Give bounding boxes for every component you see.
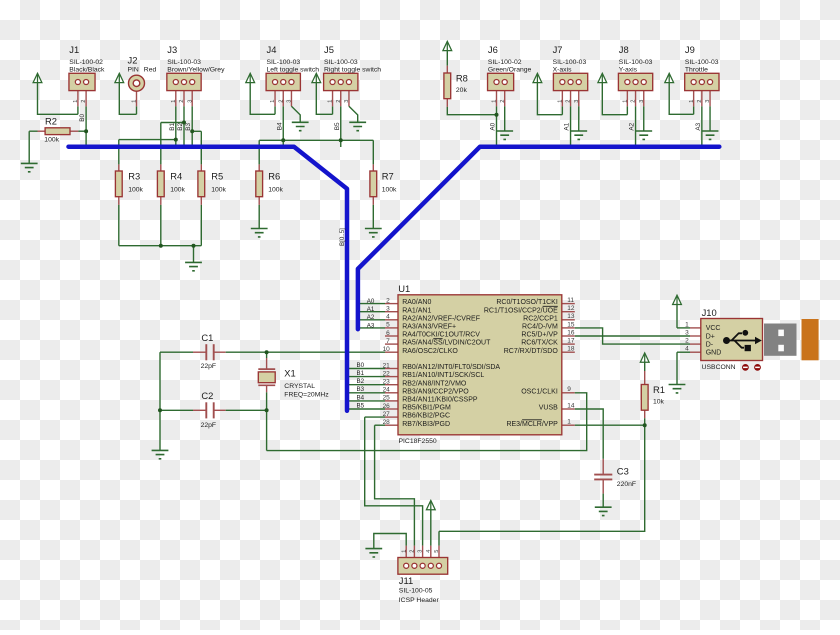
svg-text:R1: R1 <box>653 384 665 395</box>
svg-text:RA0/AN0: RA0/AN0 <box>402 299 431 306</box>
svg-text:17: 17 <box>567 338 575 345</box>
svg-text:SIL-100-03: SIL-100-03 <box>267 59 301 66</box>
svg-text:C3: C3 <box>617 465 629 476</box>
svg-text:RB4/AN11/KBI0/CSSPP: RB4/AN11/KBI0/CSSPP <box>402 397 478 404</box>
svg-text:RC4/D-/VM: RC4/D-/VM <box>522 324 558 331</box>
svg-text:3: 3 <box>187 100 193 103</box>
svg-text:OSC1/CLKI: OSC1/CLKI <box>521 388 558 395</box>
svg-text:100k: 100k <box>170 186 185 193</box>
svg-text:4: 4 <box>426 550 432 553</box>
svg-text:RC2/CCP1: RC2/CCP1 <box>523 315 558 322</box>
svg-text:3: 3 <box>685 329 689 336</box>
svg-text:J11: J11 <box>399 575 413 586</box>
svg-text:J7: J7 <box>553 44 563 55</box>
svg-text:B5: B5 <box>357 402 365 409</box>
svg-text:B4: B4 <box>276 122 283 130</box>
svg-text:GND: GND <box>706 350 722 357</box>
svg-text:RC6/TX/CK: RC6/TX/CK <box>521 340 558 347</box>
svg-text:A2: A2 <box>367 314 375 321</box>
svg-text:B1: B1 <box>169 123 176 131</box>
svg-text:PIC18F2550: PIC18F2550 <box>399 438 437 445</box>
svg-text:1: 1 <box>132 100 138 103</box>
svg-text:X-axis: X-axis <box>553 66 572 73</box>
svg-text:2: 2 <box>631 100 637 103</box>
svg-text:B0: B0 <box>79 113 86 121</box>
svg-text:Right toggle switch: Right toggle switch <box>324 66 381 73</box>
svg-text:11: 11 <box>567 297 574 304</box>
svg-text:RB7/KBI3/PGD: RB7/KBI3/PGD <box>402 421 450 428</box>
svg-text:B1: B1 <box>357 370 365 377</box>
svg-text:FREQ=20MHz: FREQ=20MHz <box>284 392 329 399</box>
svg-text:18: 18 <box>567 346 575 353</box>
svg-text:100k: 100k <box>44 136 59 143</box>
svg-text:RC5/D+/VP: RC5/D+/VP <box>521 332 558 339</box>
svg-text:SIL-100-02: SIL-100-02 <box>69 59 103 66</box>
svg-text:RA5/AN4/SS/LVDIN/C2OUT: RA5/AN4/SS/LVDIN/C2OUT <box>402 340 491 347</box>
svg-text:SIL-100-03: SIL-100-03 <box>324 59 358 66</box>
svg-text:100k: 100k <box>382 186 397 193</box>
svg-text:1: 1 <box>171 100 177 103</box>
svg-text:SIL-100-05: SIL-100-05 <box>399 588 433 595</box>
svg-text:5: 5 <box>386 322 390 329</box>
svg-text:1: 1 <box>622 100 628 103</box>
svg-text:1: 1 <box>685 321 689 328</box>
svg-text:A0: A0 <box>367 298 375 305</box>
svg-text:PIN: PIN <box>128 66 139 73</box>
svg-text:4: 4 <box>685 346 689 353</box>
svg-text:13: 13 <box>567 313 575 320</box>
svg-text:1: 1 <box>492 100 498 103</box>
svg-text:16: 16 <box>567 329 575 336</box>
svg-text:Throttle: Throttle <box>685 66 708 73</box>
svg-text:D+: D+ <box>706 333 715 340</box>
svg-text:B2: B2 <box>357 378 365 385</box>
svg-text:R8: R8 <box>456 72 468 83</box>
svg-text:CRYSTAL: CRYSTAL <box>284 383 315 390</box>
svg-text:22pF: 22pF <box>201 422 217 429</box>
svg-text:12: 12 <box>567 305 575 312</box>
svg-text:9: 9 <box>567 386 571 393</box>
svg-text:100k: 100k <box>211 186 226 193</box>
svg-text:20k: 20k <box>456 87 468 94</box>
svg-text:R2: R2 <box>45 116 57 127</box>
svg-text:6: 6 <box>386 330 390 337</box>
svg-text:2: 2 <box>278 100 284 103</box>
svg-text:2: 2 <box>410 550 416 553</box>
svg-text:RE3/MCLR/VPP: RE3/MCLR/VPP <box>506 421 558 428</box>
svg-text:2: 2 <box>179 100 185 103</box>
svg-text:Brown/Yellow/Grey: Brown/Yellow/Grey <box>167 66 225 73</box>
svg-text:25: 25 <box>383 395 391 402</box>
svg-text:R7: R7 <box>382 170 394 181</box>
svg-text:5: 5 <box>434 550 440 553</box>
svg-text:B2: B2 <box>177 123 184 131</box>
svg-text:27: 27 <box>383 411 391 418</box>
svg-text:2: 2 <box>685 338 689 345</box>
svg-text:7: 7 <box>386 338 390 345</box>
svg-text:2: 2 <box>336 100 342 103</box>
svg-text:2: 2 <box>697 100 703 103</box>
svg-text:3: 3 <box>418 550 424 553</box>
svg-text:R4: R4 <box>170 170 182 181</box>
svg-text:A1: A1 <box>367 306 375 313</box>
svg-text:22: 22 <box>383 370 391 377</box>
svg-text:J5: J5 <box>324 44 334 55</box>
svg-text:B5: B5 <box>334 122 341 130</box>
svg-text:1: 1 <box>328 100 334 103</box>
svg-text:RA1/AN1: RA1/AN1 <box>402 307 431 314</box>
svg-text:A0: A0 <box>490 122 497 130</box>
svg-text:23: 23 <box>383 379 391 386</box>
svg-text:10k: 10k <box>653 398 665 405</box>
svg-text:3: 3 <box>287 100 293 103</box>
svg-text:220nF: 220nF <box>617 481 636 488</box>
svg-text:RB0/AN12/INT0/FLT0/SDI/SDA: RB0/AN12/INT0/FLT0/SDI/SDA <box>402 364 500 371</box>
svg-text:RB2/AN8/INT2/VMO: RB2/AN8/INT2/VMO <box>402 380 467 387</box>
svg-text:3: 3 <box>574 100 580 103</box>
svg-text:1: 1 <box>270 100 276 103</box>
svg-text:SIL-100-02: SIL-100-02 <box>488 59 522 66</box>
svg-text:Red: Red <box>144 66 157 73</box>
svg-text:A3: A3 <box>367 322 375 329</box>
svg-text:1: 1 <box>401 550 407 553</box>
svg-text:Black/Black: Black/Black <box>69 66 105 73</box>
svg-text:J10: J10 <box>702 307 717 318</box>
svg-text:100k: 100k <box>128 186 143 193</box>
svg-text:A2: A2 <box>629 122 636 130</box>
svg-text:ICSP Header: ICSP Header <box>399 597 440 604</box>
svg-text:SIL-100-03: SIL-100-03 <box>553 59 587 66</box>
svg-text:3: 3 <box>639 100 645 103</box>
svg-text:4: 4 <box>386 314 390 321</box>
svg-text:J3: J3 <box>167 44 177 55</box>
svg-text:2: 2 <box>81 100 87 103</box>
svg-text:R3: R3 <box>128 170 140 181</box>
svg-text:2: 2 <box>386 297 390 304</box>
svg-text:VCC: VCC <box>706 325 721 332</box>
svg-text:USBCONN: USBCONN <box>702 364 736 371</box>
svg-text:A3: A3 <box>695 122 702 130</box>
svg-text:22pF: 22pF <box>201 363 217 370</box>
svg-text:J1: J1 <box>69 44 79 55</box>
svg-text:Green/Orange: Green/Orange <box>488 66 532 73</box>
svg-text:J6: J6 <box>488 44 498 55</box>
svg-text:2: 2 <box>566 100 572 103</box>
svg-text:SIL-100-03: SIL-100-03 <box>167 59 201 66</box>
svg-text:3: 3 <box>386 306 390 313</box>
svg-text:VUSB: VUSB <box>539 405 558 412</box>
svg-text:21: 21 <box>383 362 391 369</box>
svg-text:J8: J8 <box>619 44 629 55</box>
svg-text:Y-axis: Y-axis <box>619 66 638 73</box>
svg-text:C1: C1 <box>201 332 213 343</box>
svg-text:J9: J9 <box>685 44 695 55</box>
svg-text:B[0..5]: B[0..5] <box>339 228 346 246</box>
svg-text:R6: R6 <box>268 170 280 181</box>
svg-text:B3: B3 <box>357 386 365 393</box>
svg-text:SIL-100-03: SIL-100-03 <box>619 59 653 66</box>
svg-text:RC0/T1OSO/T1CKI: RC0/T1OSO/T1CKI <box>496 299 558 306</box>
svg-text:B3: B3 <box>185 123 192 131</box>
svg-text:15: 15 <box>567 321 575 328</box>
svg-text:RC1/T1OSI/CCP2/UOE: RC1/T1OSI/CCP2/UOE <box>484 307 558 314</box>
svg-text:3: 3 <box>705 100 711 103</box>
svg-text:RA2/AN2/VREF-/CVREF: RA2/AN2/VREF-/CVREF <box>402 315 480 322</box>
svg-text:J2: J2 <box>128 54 138 65</box>
svg-text:100k: 100k <box>268 186 283 193</box>
svg-text:B0: B0 <box>357 362 365 369</box>
svg-text:R5: R5 <box>211 170 223 181</box>
svg-text:28: 28 <box>383 419 391 426</box>
svg-text:RB6/KBI2/PGC: RB6/KBI2/PGC <box>402 413 450 420</box>
svg-text:3: 3 <box>344 100 350 103</box>
svg-text:SIL-100-03: SIL-100-03 <box>685 59 719 66</box>
svg-text:1: 1 <box>73 100 79 103</box>
svg-text:26: 26 <box>383 403 391 410</box>
svg-text:RA3/AN3/VREF+: RA3/AN3/VREF+ <box>402 324 456 331</box>
svg-text:1: 1 <box>567 419 571 426</box>
svg-text:10: 10 <box>383 346 391 353</box>
svg-text:Left toggle switch: Left toggle switch <box>267 66 320 73</box>
svg-text:24: 24 <box>383 387 391 394</box>
svg-text:RB5/KBI1/PGM: RB5/KBI1/PGM <box>402 405 451 412</box>
svg-text:RC7/RX/DT/SDO: RC7/RX/DT/SDO <box>504 348 559 355</box>
svg-text:C2: C2 <box>201 390 213 401</box>
svg-text:RA6/OSC2/CLKO: RA6/OSC2/CLKO <box>402 348 458 355</box>
svg-text:U1: U1 <box>398 283 410 294</box>
svg-text:1: 1 <box>689 100 695 103</box>
svg-text:J4: J4 <box>267 44 277 55</box>
svg-text:X1: X1 <box>284 368 295 379</box>
svg-text:D-: D- <box>706 341 714 348</box>
svg-text:RB1/AN10/INT1/SCK/SCL: RB1/AN10/INT1/SCK/SCL <box>402 372 484 379</box>
svg-text:RB3/AN9/CCP2/VPO: RB3/AN9/CCP2/VPO <box>402 388 469 395</box>
svg-text:14: 14 <box>567 402 575 409</box>
svg-text:1: 1 <box>557 100 563 103</box>
svg-text:RA4/T0CKI/C1OUT/RCV: RA4/T0CKI/C1OUT/RCV <box>402 332 480 339</box>
svg-text:A1: A1 <box>564 122 571 130</box>
svg-text:B4: B4 <box>357 394 365 401</box>
svg-text:2: 2 <box>500 100 506 103</box>
